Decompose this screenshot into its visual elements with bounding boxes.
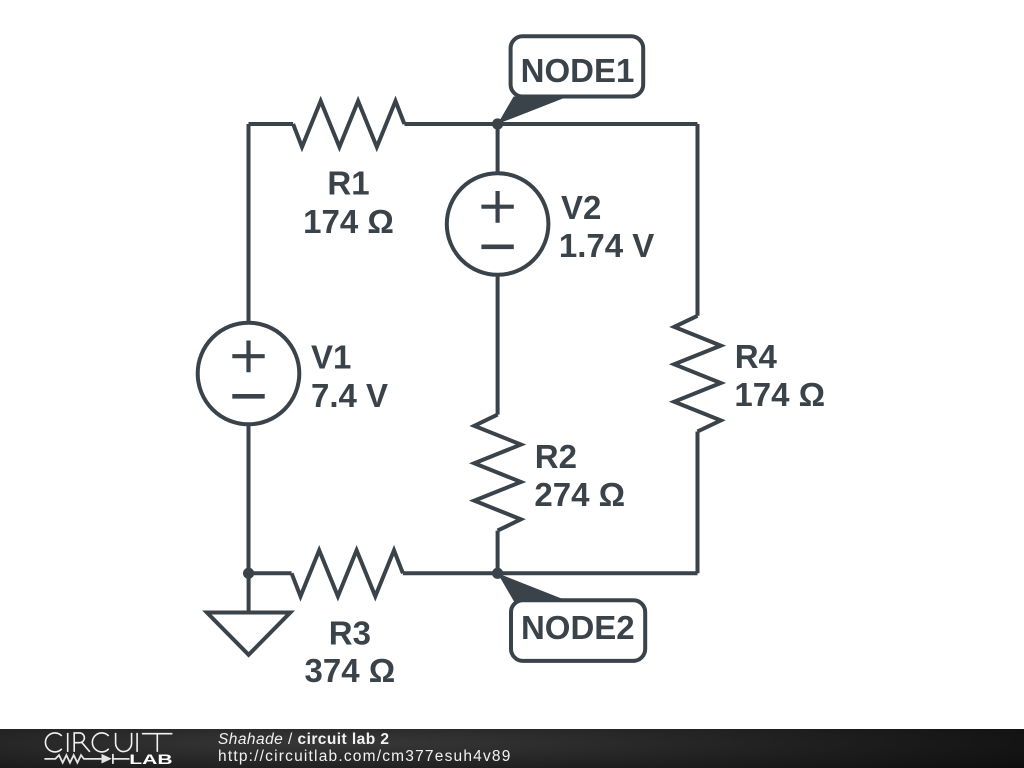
svg-text:LAB: LAB [129, 752, 173, 767]
wire top segment left of R1 [249, 122, 294, 126]
svg-text:V2: V2 [561, 189, 601, 226]
resistor R2 [474, 415, 521, 531]
node junction dot NODE1 [492, 118, 503, 129]
wire left vertical lower [247, 424, 251, 573]
svg-text:274 Ω: 274 Ω [534, 476, 625, 513]
wire left vertical upper [247, 124, 251, 323]
svg-text:1.74 V: 1.74 V [559, 227, 654, 264]
wire ground stub [247, 573, 251, 612]
wire bottom segment right of R3 [403, 571, 698, 575]
node junction dot NODE2 [492, 568, 503, 579]
ground [207, 613, 290, 655]
voltage source V1 [198, 323, 300, 425]
footer url [218, 747, 512, 766]
node label NODE2 box [511, 600, 645, 661]
wire right vertical upper [696, 124, 700, 316]
svg-text:174 Ω: 174 Ω [303, 203, 394, 240]
resistor R1 [293, 101, 404, 147]
svg-text:374 Ω: 374 Ω [305, 652, 396, 689]
resistor R3 [292, 550, 403, 596]
wire middle vertical lower [496, 531, 500, 574]
footer bar [0, 729, 1024, 768]
svg-text:7.4 V: 7.4 V [311, 377, 388, 414]
logo diode triangle [102, 754, 112, 764]
svg-text:R2: R2 [535, 438, 577, 475]
wire right vertical lower [696, 432, 700, 574]
svg-text:NODE1: NODE1 [521, 52, 635, 89]
footer title [218, 730, 390, 749]
callout pointer NODE2 [498, 573, 566, 602]
svg-text:V1: V1 [311, 339, 351, 376]
svg-text:174 Ω: 174 Ω [734, 376, 825, 413]
logo CIRCUIT wordmark [45, 733, 172, 752]
svg-text:R3: R3 [329, 614, 371, 651]
wire top segment right of R1 [404, 122, 697, 126]
svg-text:R1: R1 [327, 164, 369, 201]
wire bottom segment left of R3 [249, 571, 292, 575]
resistor R4 [674, 316, 721, 432]
voltage source V2 [447, 173, 549, 275]
svg-text:R4: R4 [735, 338, 778, 375]
node label NODE1 box [511, 36, 644, 96]
wire middle vertical middle [496, 274, 500, 415]
node junction dot ground [243, 568, 254, 579]
logo resistor-diode squiggle [44, 754, 129, 764]
callout pointer NODE1 [498, 97, 568, 125]
svg-text:NODE2: NODE2 [521, 609, 635, 646]
wire middle vertical upper [496, 124, 500, 175]
